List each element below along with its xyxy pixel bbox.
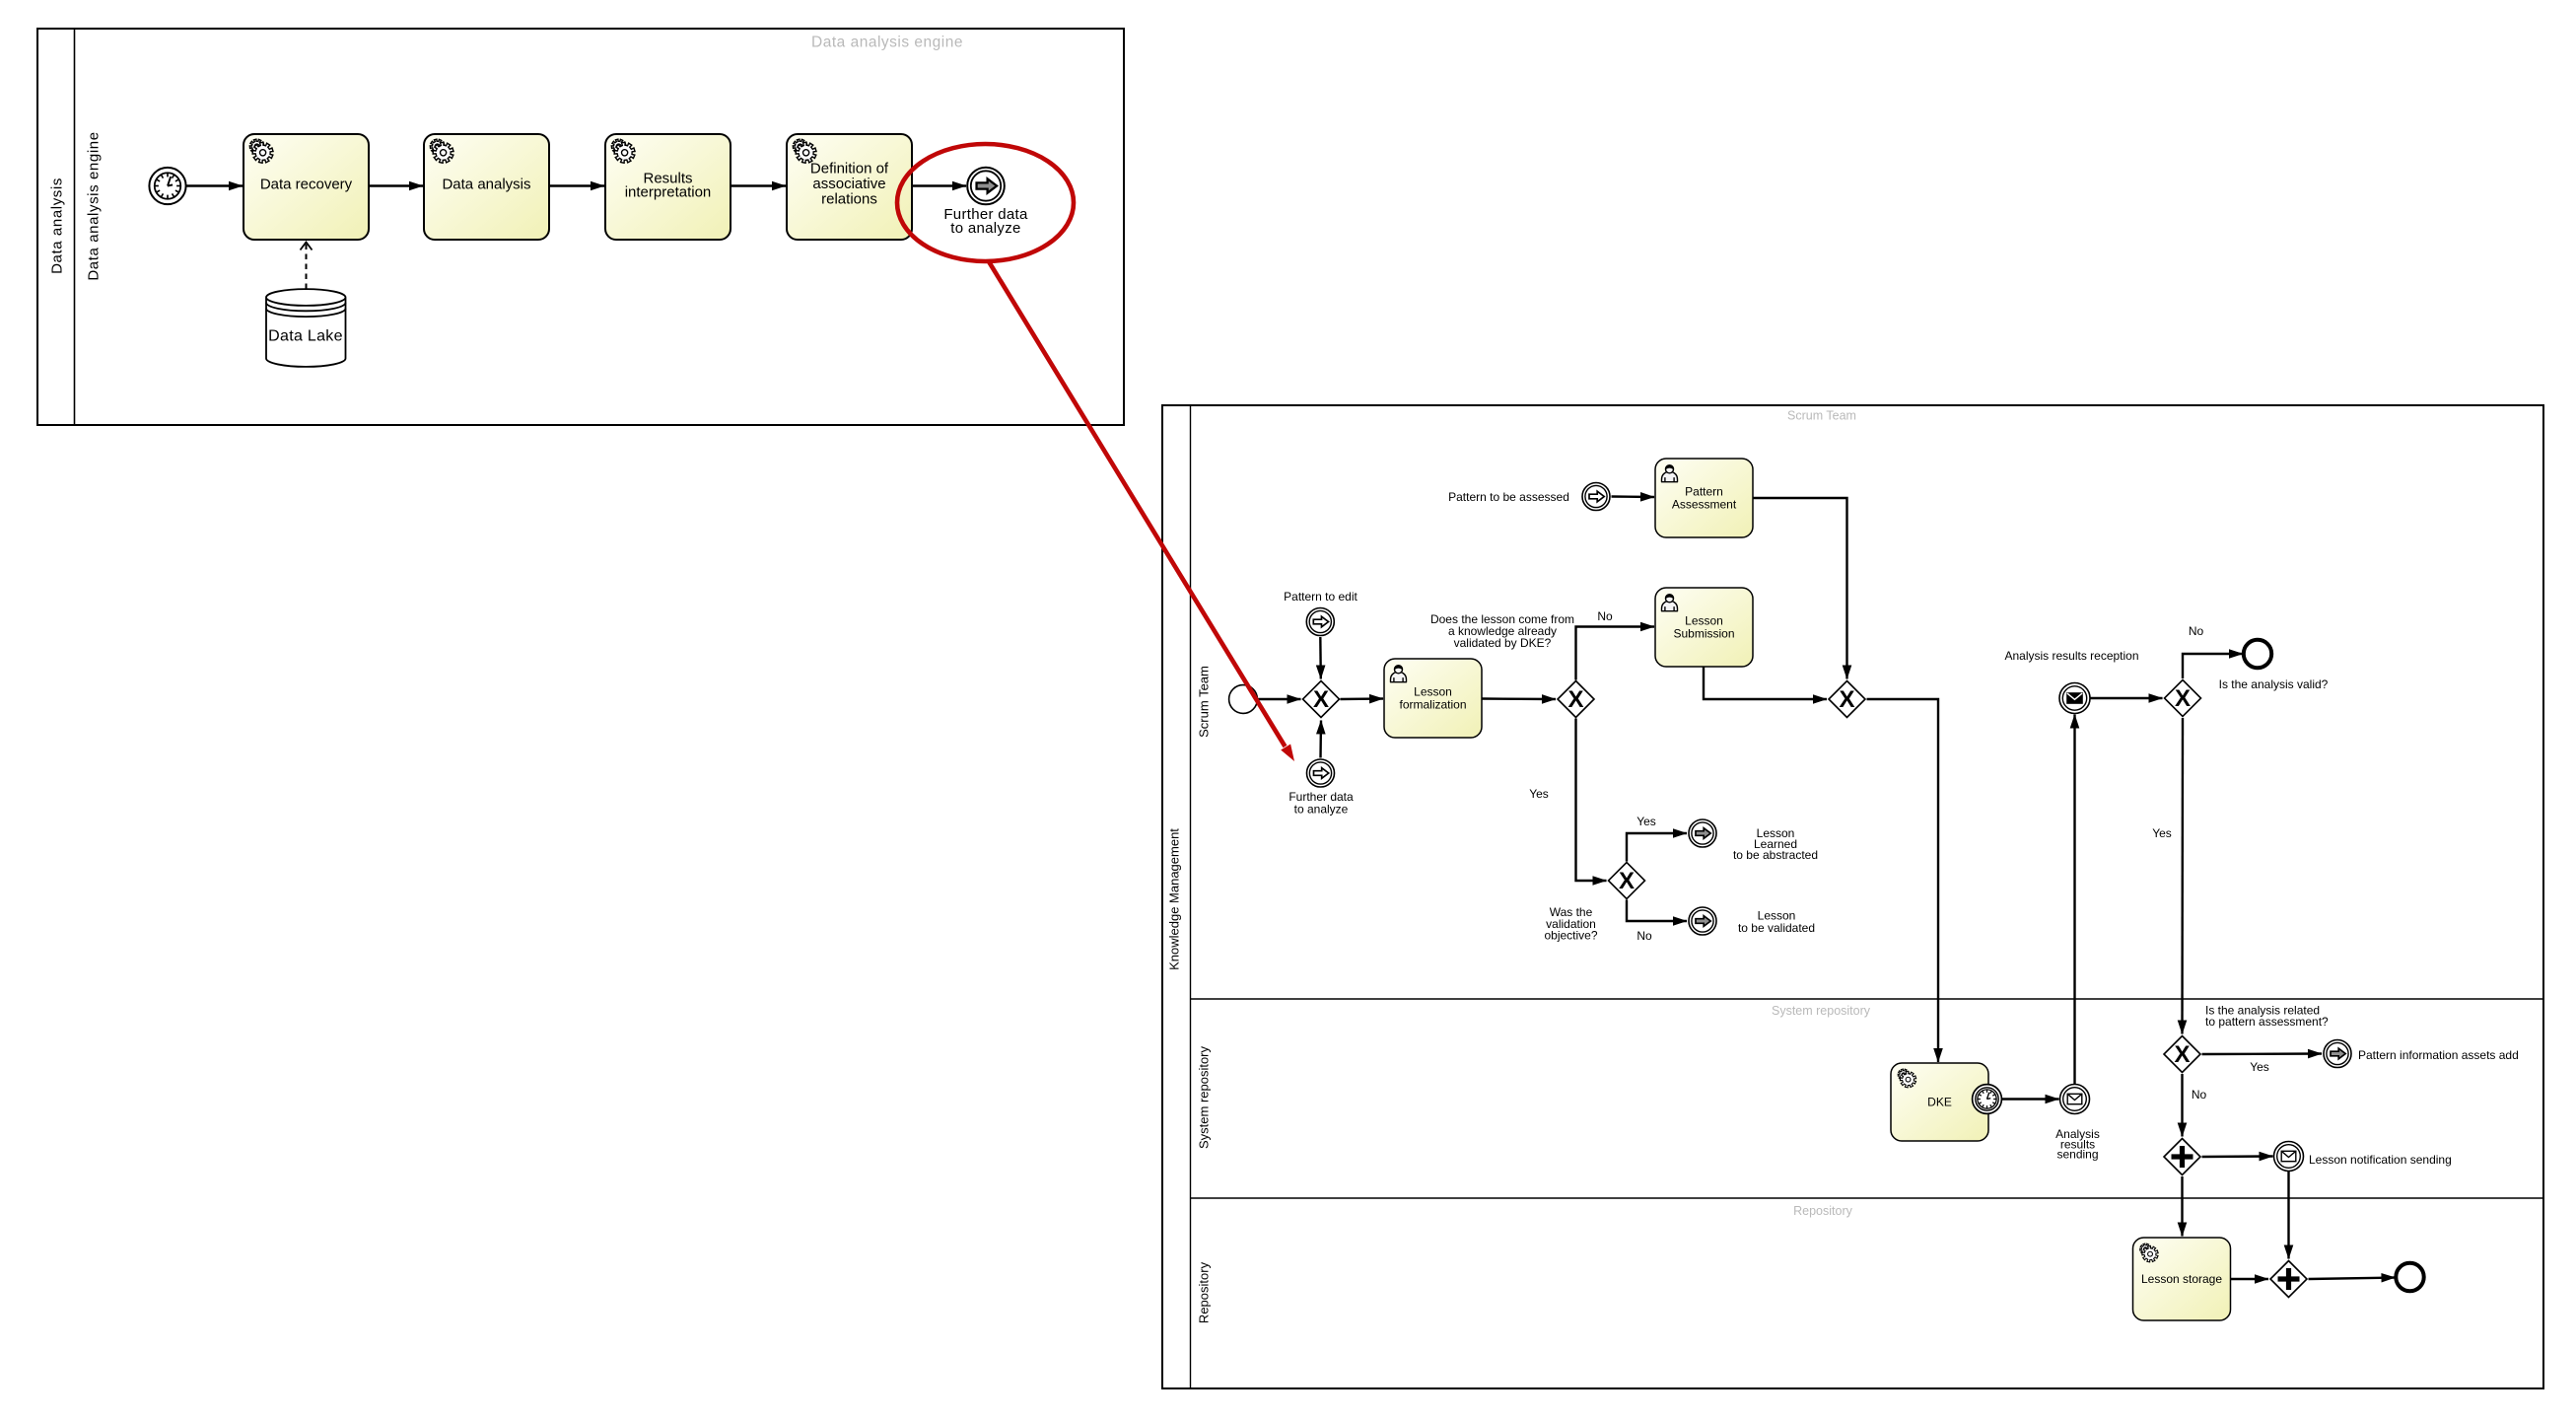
svg-text:Lesson storage: Lesson storage	[2141, 1272, 2222, 1286]
svg-text:to analyze: to analyze	[1294, 803, 1349, 817]
svg-text:to be abstracted: to be abstracted	[1733, 848, 1818, 862]
svg-text:Yes: Yes	[2152, 826, 2172, 840]
svg-text:Data analysis: Data analysis	[442, 177, 530, 193]
svg-text:System repository: System repository	[1197, 1045, 1212, 1149]
svg-text:Knowledge Management: Knowledge Management	[1167, 828, 1182, 970]
svg-text:interpretation: interpretation	[625, 184, 712, 201]
svg-text:X: X	[1567, 686, 1583, 713]
svg-text:associative: associative	[812, 176, 885, 192]
svg-text:Scrum Team: Scrum Team	[1787, 409, 1856, 423]
svg-text:validated by DKE?: validated by DKE?	[1454, 636, 1552, 650]
svg-text:Pattern to be assessed: Pattern to be assessed	[1448, 490, 1569, 504]
svg-text:Pattern to edit: Pattern to edit	[1284, 590, 1358, 604]
svg-text:X: X	[1619, 868, 1635, 894]
svg-text:System repository: System repository	[1772, 1004, 1871, 1018]
svg-text:No: No	[2189, 624, 2204, 638]
svg-text:Lesson notification sending: Lesson notification sending	[2309, 1153, 2452, 1167]
svg-text:Data analysis engine: Data analysis engine	[86, 131, 103, 280]
svg-text:relations: relations	[821, 191, 877, 208]
svg-text:Yes: Yes	[1529, 787, 1549, 801]
svg-text:Yes: Yes	[2250, 1060, 2269, 1074]
svg-text:Definition of: Definition of	[810, 161, 889, 178]
svg-text:X: X	[2174, 1041, 2190, 1068]
svg-text:to analyze: to analyze	[950, 220, 1020, 237]
svg-text:No: No	[1636, 929, 1652, 943]
svg-text:to be validated: to be validated	[1738, 921, 1815, 935]
svg-text:No: No	[1597, 609, 1613, 623]
svg-text:Data Lake: Data Lake	[268, 328, 343, 345]
svg-text:objective?: objective?	[1544, 929, 1597, 943]
svg-text:Assessment: Assessment	[1672, 497, 1737, 511]
svg-text:Analysis results reception: Analysis results reception	[2004, 649, 2138, 663]
svg-text:Data analysis: Data analysis	[49, 178, 66, 274]
svg-text:formalization: formalization	[1399, 697, 1466, 711]
svg-text:Repository: Repository	[1197, 1261, 1212, 1323]
svg-text:X: X	[2175, 685, 2191, 712]
svg-text:Submission: Submission	[1673, 626, 1734, 640]
svg-text:Repository: Repository	[1793, 1204, 1852, 1218]
svg-text:Is the analysis valid?: Is the analysis valid?	[2219, 677, 2329, 691]
svg-text:Scrum Team: Scrum Team	[1197, 666, 1212, 738]
svg-text:to pattern assessment?: to pattern assessment?	[2205, 1015, 2329, 1029]
svg-text:X: X	[1839, 686, 1854, 713]
svg-text:DKE: DKE	[1927, 1096, 1952, 1109]
svg-text:Data recovery: Data recovery	[260, 177, 353, 193]
svg-text:Pattern information assets add: Pattern information assets add	[2358, 1048, 2519, 1062]
svg-text:Data analysis engine: Data analysis engine	[811, 35, 963, 51]
svg-text:No: No	[2192, 1088, 2207, 1102]
svg-text:X: X	[1313, 686, 1329, 713]
svg-text:Yes: Yes	[1636, 815, 1656, 828]
svg-text:sending: sending	[2056, 1148, 2098, 1162]
